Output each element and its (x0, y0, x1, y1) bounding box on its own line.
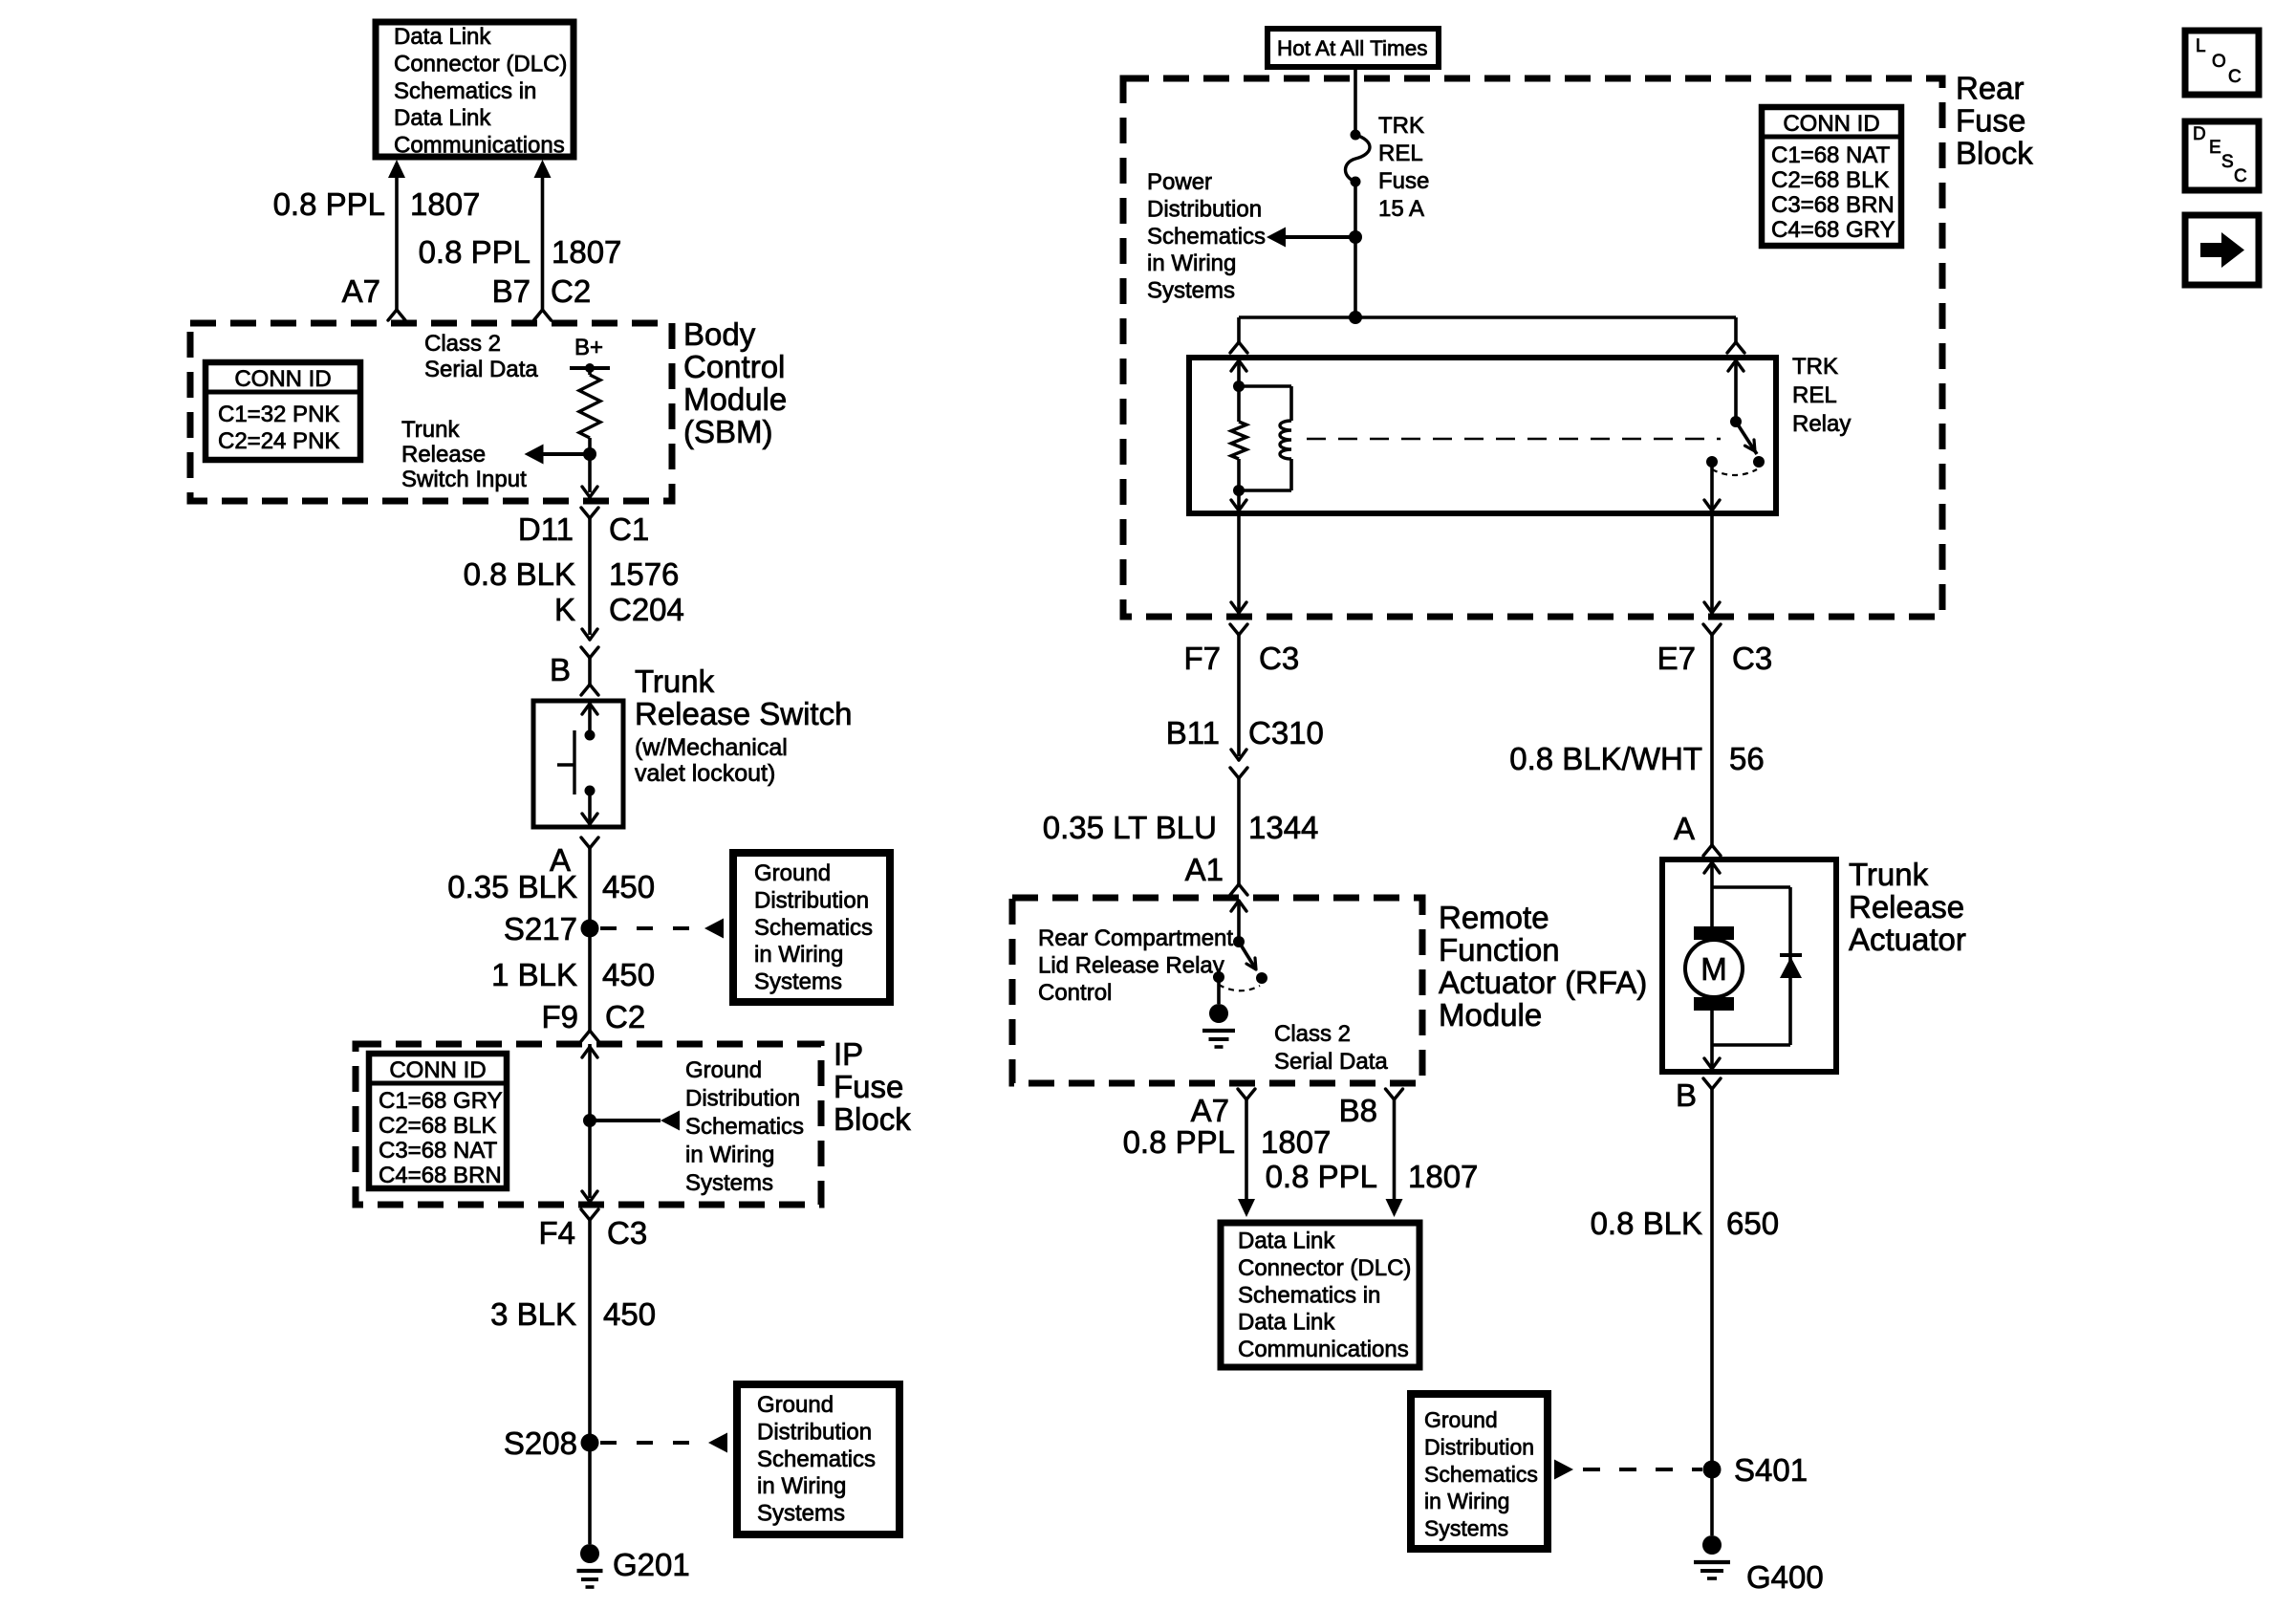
svg-text:C2: C2 (551, 273, 591, 309)
svg-text:O: O (2212, 52, 2226, 72)
svg-text:Schematics: Schematics (1424, 1462, 1538, 1487)
svg-text:Connector (DLC): Connector (DLC) (1238, 1255, 1411, 1281)
svg-text:in Wiring: in Wiring (757, 1473, 846, 1499)
svg-text:Distribution: Distribution (1147, 196, 1262, 222)
svg-text:CONN ID: CONN ID (234, 366, 331, 392)
svg-text:Fuse: Fuse (1956, 103, 2025, 139)
svg-text:Fuse: Fuse (1378, 168, 1429, 194)
svg-text:C1=68 NAT: C1=68 NAT (1771, 142, 1891, 168)
svg-text:Ground: Ground (685, 1057, 762, 1083)
svg-text:F4: F4 (538, 1215, 575, 1251)
svg-text:Block: Block (1956, 136, 2033, 171)
svg-text:Class 2: Class 2 (1274, 1021, 1351, 1047)
svg-text:Distribution: Distribution (754, 887, 869, 913)
svg-text:C: C (2228, 67, 2242, 87)
svg-text:in Wiring: in Wiring (685, 1142, 774, 1168)
svg-text:Release: Release (1849, 889, 1964, 925)
svg-text:in Wiring: in Wiring (1424, 1489, 1509, 1513)
svg-text:M: M (1700, 951, 1727, 987)
svg-text:1807: 1807 (1408, 1159, 1478, 1194)
svg-text:0.8 PPL: 0.8 PPL (1123, 1124, 1235, 1160)
svg-text:Systems: Systems (757, 1501, 845, 1527)
svg-text:56: 56 (1729, 741, 1765, 776)
svg-text:450: 450 (603, 1296, 656, 1332)
svg-text:0.35 BLK: 0.35 BLK (447, 869, 577, 904)
svg-text:Control: Control (1038, 980, 1112, 1006)
svg-text:Data Link: Data Link (394, 105, 491, 131)
svg-text:Schematics: Schematics (754, 915, 873, 941)
svg-text:CONN ID: CONN ID (389, 1057, 486, 1083)
svg-text:C2=24 PNK: C2=24 PNK (218, 428, 339, 454)
svg-text:0.35 LT BLU: 0.35 LT BLU (1043, 810, 1217, 845)
svg-text:Module: Module (1439, 997, 1542, 1033)
svg-text:1807: 1807 (410, 186, 480, 222)
svg-text:C3=68 NAT: C3=68 NAT (379, 1138, 498, 1164)
svg-text:Fuse: Fuse (834, 1069, 903, 1104)
svg-text:Lid Release Relay: Lid Release Relay (1038, 953, 1224, 979)
svg-text:Release Switch: Release Switch (635, 696, 852, 731)
svg-text:Serial Data: Serial Data (1274, 1049, 1388, 1075)
svg-text:A: A (1674, 811, 1695, 846)
svg-text:0.8 PPL: 0.8 PPL (1266, 1159, 1377, 1194)
svg-text:Actuator: Actuator (1849, 922, 1966, 957)
svg-text:A1: A1 (1185, 852, 1224, 887)
svg-text:D: D (2193, 124, 2206, 144)
svg-text:Schematics: Schematics (1147, 224, 1266, 250)
svg-text:1576: 1576 (609, 556, 679, 592)
svg-text:Actuator (RFA): Actuator (RFA) (1439, 965, 1647, 1000)
svg-text:S217: S217 (504, 911, 577, 946)
svg-text:Distribution: Distribution (685, 1086, 800, 1112)
svg-text:Data Link: Data Link (394, 24, 491, 50)
svg-text:REL: REL (1378, 141, 1423, 166)
svg-text:1807: 1807 (552, 234, 621, 270)
svg-text:Class 2: Class 2 (424, 331, 501, 357)
svg-text:B11: B11 (1166, 715, 1220, 751)
svg-text:in Wiring: in Wiring (754, 942, 843, 968)
svg-text:IP: IP (834, 1036, 863, 1072)
svg-text:Distribution: Distribution (757, 1419, 872, 1445)
svg-text:Ground: Ground (757, 1392, 834, 1418)
svg-text:Systems: Systems (754, 969, 842, 995)
svg-text:Systems: Systems (1147, 278, 1235, 304)
svg-text:S: S (2221, 152, 2234, 172)
svg-text:Remote: Remote (1439, 900, 1549, 935)
svg-text:450: 450 (602, 869, 655, 904)
svg-text:C4=68 GRY: C4=68 GRY (1771, 217, 1895, 243)
svg-text:C: C (2234, 166, 2247, 186)
svg-text:3 BLK: 3 BLK (490, 1296, 576, 1332)
svg-text:Release: Release (401, 442, 486, 468)
svg-text:Data Link: Data Link (1238, 1229, 1335, 1254)
svg-text:650: 650 (1726, 1206, 1779, 1241)
svg-text:Schematics in: Schematics in (1238, 1282, 1380, 1308)
svg-text:0.8 PPL: 0.8 PPL (273, 186, 385, 222)
svg-text:F7: F7 (1183, 641, 1221, 676)
svg-text:B+: B+ (574, 335, 603, 360)
svg-text:Ground: Ground (754, 860, 831, 886)
svg-text:1344: 1344 (1248, 810, 1318, 845)
svg-text:L: L (2196, 36, 2206, 56)
svg-text:Data Link: Data Link (1238, 1310, 1335, 1336)
svg-text:Communications: Communications (1238, 1337, 1409, 1362)
svg-text:C3: C3 (607, 1215, 647, 1251)
svg-text:(w/Mechanical: (w/Mechanical (635, 734, 788, 761)
svg-text:(SBM): (SBM) (683, 414, 773, 449)
svg-text:C204: C204 (609, 592, 684, 627)
svg-text:C4=68 BRN: C4=68 BRN (379, 1163, 502, 1188)
svg-text:B7: B7 (492, 273, 531, 309)
svg-text:C1=32 PNK: C1=32 PNK (218, 402, 339, 427)
svg-text:B: B (550, 652, 571, 687)
svg-text:C1: C1 (609, 511, 649, 547)
svg-text:Communications: Communications (394, 133, 565, 159)
svg-text:TRK: TRK (1378, 113, 1424, 139)
svg-text:Systems: Systems (1424, 1516, 1508, 1541)
svg-text:0.8 BLK/WHT: 0.8 BLK/WHT (1509, 741, 1702, 776)
svg-text:Trunk: Trunk (401, 417, 460, 443)
svg-text:S208: S208 (504, 1425, 577, 1461)
svg-text:C2=68 BLK: C2=68 BLK (1771, 167, 1889, 193)
svg-text:B8: B8 (1339, 1093, 1377, 1128)
svg-text:Schematics in: Schematics in (394, 78, 536, 104)
svg-text:valet lockout): valet lockout) (635, 760, 775, 787)
svg-text:S401: S401 (1734, 1452, 1808, 1488)
svg-text:Module: Module (683, 381, 787, 417)
svg-text:CONN ID: CONN ID (1783, 111, 1879, 137)
svg-text:TRK: TRK (1792, 354, 1838, 380)
svg-text:E7: E7 (1657, 641, 1696, 676)
svg-text:REL: REL (1792, 382, 1837, 408)
svg-text:G201: G201 (613, 1547, 690, 1582)
svg-text:Schematics: Schematics (685, 1114, 804, 1140)
svg-text:Block: Block (834, 1101, 911, 1137)
svg-text:Power: Power (1147, 169, 1212, 195)
svg-text:Control: Control (683, 349, 785, 384)
svg-text:A7: A7 (342, 273, 380, 309)
svg-text:Relay: Relay (1792, 411, 1851, 437)
svg-text:C3: C3 (1732, 641, 1772, 676)
svg-text:Trunk: Trunk (635, 664, 715, 699)
svg-text:0.8 BLK: 0.8 BLK (464, 556, 575, 592)
svg-text:C3: C3 (1259, 641, 1299, 676)
svg-text:Serial Data: Serial Data (424, 357, 538, 382)
svg-text:Distribution: Distribution (1424, 1434, 1534, 1459)
svg-text:450: 450 (602, 957, 655, 992)
svg-text:15 A: 15 A (1378, 196, 1424, 222)
svg-text:D11: D11 (518, 511, 574, 547)
svg-text:Body: Body (683, 316, 756, 352)
svg-text:C2=68 BLK: C2=68 BLK (379, 1113, 496, 1139)
svg-text:Rear: Rear (1956, 71, 2025, 106)
svg-text:A7: A7 (1191, 1093, 1229, 1128)
svg-text:Rear Compartment: Rear Compartment (1038, 925, 1233, 951)
svg-text:G400: G400 (1746, 1559, 1824, 1595)
svg-text:Hot At All Times: Hot At All Times (1277, 36, 1428, 60)
svg-text:C2: C2 (605, 999, 645, 1034)
svg-text:0.8 PPL: 0.8 PPL (419, 234, 531, 270)
svg-text:Connector (DLC): Connector (DLC) (394, 51, 567, 76)
svg-text:K: K (554, 592, 575, 627)
svg-text:1 BLK: 1 BLK (491, 957, 577, 992)
svg-text:Switch Input: Switch Input (401, 467, 527, 492)
svg-text:F9: F9 (541, 999, 578, 1034)
svg-text:C1=68 GRY: C1=68 GRY (379, 1088, 503, 1114)
svg-text:E: E (2209, 138, 2221, 158)
svg-text:B: B (1676, 1077, 1697, 1113)
svg-text:C3=68 BRN: C3=68 BRN (1771, 192, 1895, 218)
svg-text:C310: C310 (1248, 715, 1324, 751)
svg-text:Schematics: Schematics (757, 1447, 876, 1472)
svg-text:0.8 BLK: 0.8 BLK (1591, 1206, 1702, 1241)
svg-text:Ground: Ground (1424, 1407, 1498, 1432)
svg-text:Systems: Systems (685, 1170, 773, 1196)
svg-text:Function: Function (1439, 932, 1560, 968)
svg-text:Trunk: Trunk (1849, 857, 1929, 892)
svg-text:1807: 1807 (1261, 1124, 1331, 1160)
svg-text:in Wiring: in Wiring (1147, 250, 1236, 276)
